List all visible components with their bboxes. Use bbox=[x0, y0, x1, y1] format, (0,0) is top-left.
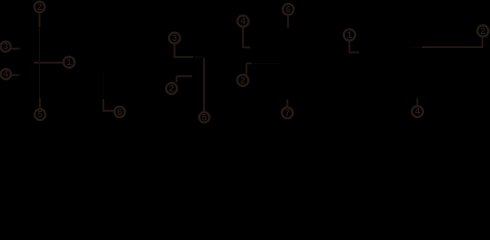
svg-text:1: 1 bbox=[347, 30, 353, 41]
svg-text:4: 4 bbox=[415, 107, 421, 118]
svg-text:3: 3 bbox=[3, 42, 8, 53]
svg-text:2: 2 bbox=[480, 26, 485, 37]
svg-text:2: 2 bbox=[240, 75, 245, 86]
svg-text:5: 5 bbox=[202, 112, 208, 123]
svg-text:3: 3 bbox=[172, 33, 177, 44]
svg-text:6: 6 bbox=[286, 4, 291, 15]
svg-text:6: 6 bbox=[117, 107, 122, 118]
svg-text:5: 5 bbox=[37, 110, 43, 121]
svg-text:2: 2 bbox=[169, 84, 174, 95]
svg-text:4: 4 bbox=[240, 16, 246, 27]
svg-text:2: 2 bbox=[37, 2, 42, 13]
svg-text:4: 4 bbox=[3, 69, 9, 80]
svg-text:1: 1 bbox=[66, 57, 72, 68]
svg-text:7: 7 bbox=[285, 108, 290, 119]
